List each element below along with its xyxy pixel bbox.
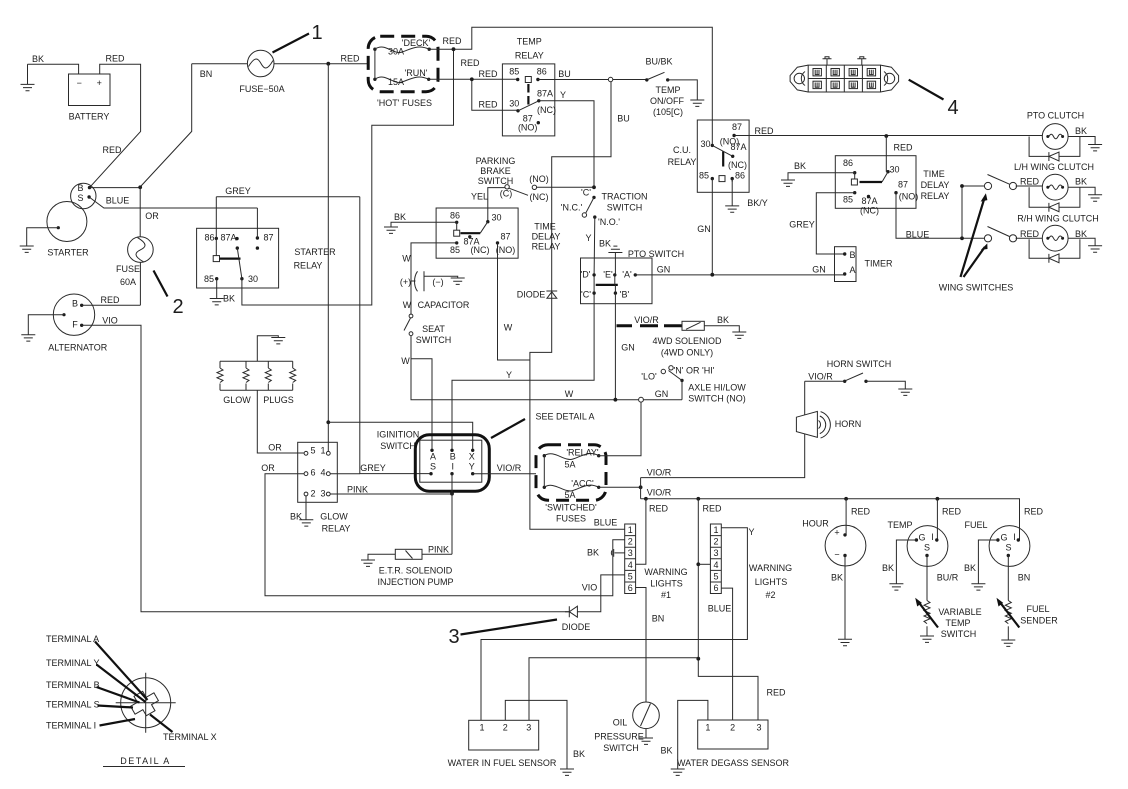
svg-text:FUSE−50A: FUSE−50A	[239, 84, 284, 94]
svg-text:S: S	[924, 543, 930, 553]
svg-text:1: 1	[705, 723, 710, 733]
svg-text:(4WD ONLY): (4WD ONLY)	[661, 348, 713, 358]
svg-text:BK: BK	[32, 54, 44, 64]
svg-text:2: 2	[172, 296, 183, 318]
svg-text:TERMINAL B: TERMINAL B	[46, 680, 100, 690]
svg-text:SWITCH: SWITCH	[603, 743, 639, 753]
svg-text:DIODE: DIODE	[517, 290, 546, 300]
svg-text:GREY: GREY	[360, 463, 386, 473]
svg-text:B: B	[77, 183, 83, 193]
svg-text:'C': 'C'	[581, 187, 591, 197]
svg-text:WARNING: WARNING	[644, 567, 687, 577]
svg-text:87A: 87A	[730, 142, 746, 152]
svg-text:SEAT: SEAT	[422, 324, 445, 334]
svg-text:TERMINAL Y: TERMINAL Y	[46, 658, 100, 668]
svg-text:RED: RED	[478, 69, 498, 79]
svg-text:4: 4	[947, 97, 958, 119]
svg-text:86: 86	[450, 211, 460, 221]
svg-text:VIO/R: VIO/R	[808, 372, 833, 382]
svg-text:PINK: PINK	[347, 485, 368, 495]
svg-text:G: G	[918, 533, 925, 543]
svg-text:STARTER: STARTER	[47, 248, 89, 258]
svg-text:30: 30	[509, 99, 519, 109]
svg-text:'DECK': 'DECK'	[402, 38, 431, 48]
svg-text:YEL: YEL	[471, 192, 488, 202]
svg-text:TERMINAL X: TERMINAL X	[163, 732, 217, 742]
svg-text:BLUE: BLUE	[106, 196, 130, 206]
svg-text:Y: Y	[506, 370, 512, 380]
svg-text:PTO CLUTCH: PTO CLUTCH	[1027, 111, 1084, 121]
svg-text:BK: BK	[882, 563, 894, 573]
svg-text:WATER DEGASS SENSOR: WATER DEGASS SENSOR	[677, 758, 790, 768]
svg-text:I: I	[1013, 532, 1016, 542]
svg-text:SENDER: SENDER	[1020, 616, 1058, 626]
svg-text:AXLE HI/LOW: AXLE HI/LOW	[688, 383, 746, 393]
svg-text:85: 85	[843, 195, 853, 205]
svg-text:RED: RED	[649, 504, 669, 514]
svg-text:B: B	[72, 299, 78, 309]
svg-text:BLUE: BLUE	[906, 230, 930, 240]
svg-text:ALTERNATOR: ALTERNATOR	[48, 343, 108, 353]
svg-text:87: 87	[898, 180, 908, 190]
svg-text:VIO: VIO	[582, 583, 598, 593]
svg-text:'LO': 'LO'	[641, 372, 657, 382]
svg-text:L/H WING CLUTCH: L/H WING CLUTCH	[1014, 162, 1094, 172]
svg-text:TEMP: TEMP	[655, 85, 680, 95]
svg-text:+: +	[97, 78, 102, 88]
svg-text:VIO/R: VIO/R	[647, 488, 672, 498]
svg-text:4: 4	[628, 560, 633, 570]
svg-text:'D': 'D'	[581, 270, 591, 280]
svg-text:2: 2	[730, 723, 735, 733]
svg-text:OR: OR	[268, 443, 282, 453]
svg-text:2: 2	[503, 723, 508, 733]
svg-text:87A: 87A	[220, 233, 236, 243]
svg-text:'C': 'C'	[581, 290, 591, 300]
svg-text:BU: BU	[617, 114, 630, 124]
svg-text:TIMER: TIMER	[865, 259, 893, 269]
svg-text:60A: 60A	[120, 277, 136, 287]
svg-text:FUSE: FUSE	[116, 264, 140, 274]
svg-text:F: F	[72, 320, 78, 330]
svg-text:RED: RED	[442, 36, 462, 46]
svg-text:86: 86	[204, 233, 214, 243]
svg-text:RED: RED	[942, 507, 962, 517]
svg-text:5: 5	[311, 446, 316, 456]
svg-text:(NC): (NC)	[728, 160, 747, 170]
svg-text:RED: RED	[460, 58, 480, 68]
svg-text:BN: BN	[1018, 573, 1031, 583]
svg-text:INJECTION PUMP: INJECTION PUMP	[377, 577, 453, 587]
svg-text:S: S	[77, 193, 83, 203]
svg-text:3: 3	[448, 626, 459, 648]
svg-text:'N' OR 'HI': 'N' OR 'HI'	[674, 366, 715, 376]
svg-text:BLUE: BLUE	[708, 604, 732, 614]
svg-text:RED: RED	[478, 100, 498, 110]
svg-text:1: 1	[628, 525, 633, 535]
svg-text:B: B	[850, 250, 856, 260]
svg-text:ON/OFF: ON/OFF	[650, 96, 684, 106]
svg-text:3: 3	[320, 489, 325, 499]
svg-text:Y: Y	[585, 233, 591, 243]
svg-text:DETAIL A: DETAIL A	[120, 756, 171, 766]
svg-text:G: G	[1000, 533, 1007, 543]
svg-text:15A: 15A	[388, 77, 404, 87]
svg-text:BK: BK	[831, 573, 843, 583]
svg-text:2: 2	[311, 489, 316, 499]
svg-text:B: B	[450, 452, 456, 462]
svg-text:87: 87	[263, 233, 273, 243]
svg-text:BK: BK	[794, 161, 806, 171]
svg-text:VIO: VIO	[102, 316, 118, 326]
svg-text:TEMP: TEMP	[517, 37, 542, 47]
svg-text:OR: OR	[261, 463, 275, 473]
svg-text:OIL: OIL	[613, 718, 628, 728]
svg-text:VIO/R: VIO/R	[634, 315, 659, 325]
svg-text:BK: BK	[964, 563, 976, 573]
svg-text:BK: BK	[660, 746, 672, 756]
svg-text:86: 86	[735, 171, 745, 181]
svg-text:SWITCH: SWITCH	[607, 203, 643, 213]
svg-text:6: 6	[713, 583, 718, 593]
svg-text:RED: RED	[766, 688, 786, 698]
svg-text:S: S	[430, 462, 436, 472]
svg-text:S: S	[1005, 543, 1011, 553]
svg-text:(NO): (NO)	[496, 245, 516, 255]
svg-text:87: 87	[732, 122, 742, 132]
svg-text:3: 3	[756, 723, 761, 733]
svg-text:RELAY: RELAY	[921, 191, 950, 201]
svg-text:RELAY: RELAY	[322, 524, 351, 534]
svg-text:BK: BK	[223, 294, 235, 304]
svg-text:(NC): (NC)	[471, 245, 490, 255]
svg-text:87A: 87A	[537, 89, 553, 99]
svg-text:6: 6	[311, 468, 316, 478]
svg-text:BK/Y: BK/Y	[747, 198, 768, 208]
svg-text:85: 85	[699, 171, 709, 181]
svg-text:PRESSURE: PRESSURE	[594, 732, 644, 742]
svg-text:FUSES: FUSES	[556, 514, 586, 524]
svg-text:GLOW: GLOW	[320, 512, 348, 522]
svg-text:TERMINAL S: TERMINAL S	[46, 700, 100, 710]
svg-text:RED: RED	[1024, 507, 1044, 517]
svg-text:GN: GN	[655, 389, 669, 399]
svg-text:#2: #2	[765, 590, 775, 600]
svg-text:BRAKE: BRAKE	[480, 166, 511, 176]
svg-text:WARNING: WARNING	[749, 563, 792, 573]
svg-text:+: +	[834, 528, 839, 538]
svg-text:FUEL: FUEL	[1026, 604, 1049, 614]
svg-text:TIME: TIME	[923, 169, 945, 179]
svg-text:IGINITION: IGINITION	[377, 430, 420, 440]
svg-text:3: 3	[526, 723, 531, 733]
svg-text:4WD SOLENIOD: 4WD SOLENIOD	[652, 336, 722, 346]
svg-text:'B': 'B'	[620, 290, 630, 300]
svg-text:W: W	[403, 300, 412, 310]
svg-text:30: 30	[700, 139, 710, 149]
svg-text:RED: RED	[340, 54, 360, 64]
svg-text:TEMP: TEMP	[945, 618, 970, 628]
svg-text:GREY: GREY	[789, 220, 815, 230]
svg-text:TEMP: TEMP	[887, 520, 912, 530]
svg-text:BK: BK	[290, 512, 302, 522]
svg-text:'RELAY': 'RELAY'	[566, 448, 599, 458]
svg-text:2: 2	[713, 537, 718, 547]
svg-text:Y: Y	[560, 90, 566, 100]
svg-text:PARKING: PARKING	[476, 156, 516, 166]
svg-text:HORN: HORN	[835, 419, 862, 429]
svg-text:5A: 5A	[564, 460, 575, 470]
svg-text:6: 6	[628, 583, 633, 593]
svg-text:(NO): (NO)	[518, 123, 538, 133]
svg-text:'A': 'A'	[622, 270, 632, 280]
svg-text:PTO SWITCH: PTO SWITCH	[628, 249, 684, 259]
svg-text:2: 2	[628, 537, 633, 547]
svg-text:LIGHTS: LIGHTS	[650, 579, 683, 589]
svg-text:4: 4	[713, 560, 718, 570]
svg-text:A: A	[430, 452, 436, 462]
svg-text:BN: BN	[200, 69, 213, 79]
svg-text:(105[C): (105[C)	[653, 107, 683, 117]
svg-text:(NO): (NO)	[529, 174, 549, 184]
svg-text:E.T.R. SOLENOID: E.T.R. SOLENOID	[379, 566, 453, 576]
svg-text:STARTER: STARTER	[294, 247, 336, 257]
svg-text:'E': 'E'	[603, 270, 613, 280]
svg-text:WATER IN FUEL SENSOR: WATER IN FUEL SENSOR	[448, 758, 557, 768]
svg-text:BK: BK	[599, 239, 611, 249]
svg-text:TERMINAL A: TERMINAL A	[46, 634, 99, 644]
svg-text:TRACTION: TRACTION	[602, 192, 648, 202]
svg-text:A: A	[850, 265, 856, 275]
svg-text:#1: #1	[661, 590, 671, 600]
svg-text:SEE DETAIL A: SEE DETAIL A	[535, 412, 594, 422]
svg-text:30A: 30A	[388, 47, 404, 57]
svg-text:BK: BK	[573, 749, 585, 759]
svg-text:GN: GN	[621, 343, 635, 353]
svg-text:BK: BK	[587, 548, 599, 558]
svg-text:85: 85	[204, 274, 214, 284]
svg-text:RELAY: RELAY	[294, 261, 323, 271]
svg-text:(NC): (NC)	[860, 206, 879, 216]
svg-text:WING SWITCHES: WING SWITCHES	[939, 283, 1014, 293]
svg-text:W: W	[565, 389, 574, 399]
svg-text:SWITCH: SWITCH	[416, 335, 452, 345]
svg-text:X: X	[469, 452, 475, 462]
svg-text:Y: Y	[748, 527, 754, 537]
svg-text:OR: OR	[145, 211, 159, 221]
svg-text:BK: BK	[394, 212, 406, 222]
svg-text:I: I	[451, 462, 454, 472]
svg-text:'SWITCHED': 'SWITCHED'	[545, 503, 597, 513]
svg-text:DELAY: DELAY	[532, 232, 561, 242]
svg-text:4: 4	[320, 468, 325, 478]
svg-text:'RUN': 'RUN'	[405, 68, 428, 78]
svg-text:BU/R: BU/R	[937, 573, 959, 583]
svg-text:RED: RED	[100, 295, 120, 305]
svg-text:−: −	[834, 550, 839, 560]
svg-text:TIME: TIME	[534, 222, 556, 232]
svg-text:85: 85	[509, 67, 519, 77]
svg-text:W: W	[402, 254, 411, 264]
svg-text:RELAY: RELAY	[532, 242, 561, 252]
svg-text:C.U.: C.U.	[673, 145, 691, 155]
svg-text:'HOT' FUSES: 'HOT' FUSES	[377, 98, 432, 108]
svg-text:30: 30	[248, 274, 258, 284]
svg-text:BU/BK: BU/BK	[645, 57, 672, 67]
svg-text:'ACC': 'ACC'	[571, 479, 594, 489]
svg-text:5: 5	[713, 571, 718, 581]
svg-text:30: 30	[889, 165, 899, 175]
svg-text:RED: RED	[102, 145, 122, 155]
svg-text:R/H WING CLUTCH: R/H WING CLUTCH	[1017, 214, 1099, 224]
svg-text:RELAY: RELAY	[668, 157, 697, 167]
svg-text:87: 87	[500, 232, 510, 242]
svg-text:1: 1	[713, 525, 718, 535]
svg-text:RED: RED	[851, 507, 871, 517]
svg-text:RED: RED	[754, 126, 774, 136]
svg-text:BLUE: BLUE	[594, 518, 618, 528]
svg-text:RED: RED	[893, 143, 913, 153]
svg-text:Y: Y	[469, 462, 475, 472]
svg-text:3: 3	[713, 548, 718, 558]
svg-text:BK: BK	[717, 315, 729, 325]
svg-text:RED: RED	[702, 504, 722, 514]
svg-text:VARIABLE: VARIABLE	[938, 607, 981, 617]
svg-text:'N.C.': 'N.C.'	[561, 203, 583, 213]
svg-text:'N.O.': 'N.O.'	[598, 217, 620, 227]
svg-text:RED: RED	[1020, 229, 1040, 239]
svg-text:GREY: GREY	[225, 186, 251, 196]
svg-text:1: 1	[311, 22, 322, 44]
svg-text:HOUR: HOUR	[802, 519, 829, 529]
svg-text:FUEL: FUEL	[964, 520, 987, 530]
svg-text:85: 85	[450, 245, 460, 255]
svg-text:BK: BK	[1075, 126, 1087, 136]
svg-text:BU: BU	[558, 69, 571, 79]
svg-text:1: 1	[320, 446, 325, 456]
svg-text:30: 30	[491, 213, 501, 223]
svg-text:RED: RED	[1020, 177, 1040, 187]
svg-text:VIO/R: VIO/R	[497, 463, 522, 473]
svg-text:VIO/R: VIO/R	[647, 468, 672, 478]
svg-text:BATTERY: BATTERY	[69, 112, 110, 122]
svg-text:GN: GN	[657, 265, 671, 275]
svg-text:DIODE: DIODE	[562, 622, 591, 632]
svg-text:RELAY: RELAY	[515, 51, 544, 61]
svg-text:1: 1	[479, 723, 484, 733]
svg-text:−: −	[77, 78, 82, 88]
svg-text:SWITCH: SWITCH	[380, 441, 416, 451]
svg-text:RED: RED	[105, 54, 125, 64]
svg-text:I: I	[931, 532, 934, 542]
svg-text:BN: BN	[652, 614, 665, 624]
svg-text:SWITCH: SWITCH	[941, 629, 977, 639]
svg-text:(C): (C)	[500, 189, 513, 199]
svg-text:GN: GN	[812, 265, 826, 275]
svg-text:CAPACITOR: CAPACITOR	[418, 300, 470, 310]
svg-text:(NO): (NO)	[899, 192, 919, 202]
svg-text:5A: 5A	[564, 490, 575, 500]
svg-text:GLOW: GLOW	[223, 395, 251, 405]
svg-text:HORN SWITCH: HORN SWITCH	[827, 359, 892, 369]
svg-text:TERMINAL I: TERMINAL I	[46, 721, 96, 731]
svg-text:3: 3	[628, 548, 633, 558]
svg-text:(NC): (NC)	[537, 105, 556, 115]
svg-text:SWITCH (NO): SWITCH (NO)	[688, 394, 746, 404]
svg-text:PLUGS: PLUGS	[263, 395, 294, 405]
svg-text:86: 86	[537, 67, 547, 77]
svg-text:W: W	[504, 323, 513, 333]
svg-text:DELAY: DELAY	[921, 180, 950, 190]
svg-text:5: 5	[628, 571, 633, 581]
svg-text:86: 86	[843, 158, 853, 168]
svg-text:(+): (+)	[400, 277, 411, 287]
svg-text:(−): (−)	[432, 277, 443, 287]
svg-text:W: W	[401, 356, 410, 366]
svg-text:BK: BK	[1075, 229, 1087, 239]
svg-text:(NC): (NC)	[530, 192, 549, 202]
svg-text:GN: GN	[697, 224, 711, 234]
svg-text:BK: BK	[1075, 177, 1087, 187]
svg-text:LIGHTS: LIGHTS	[755, 577, 788, 587]
svg-text:PINK: PINK	[428, 545, 449, 555]
